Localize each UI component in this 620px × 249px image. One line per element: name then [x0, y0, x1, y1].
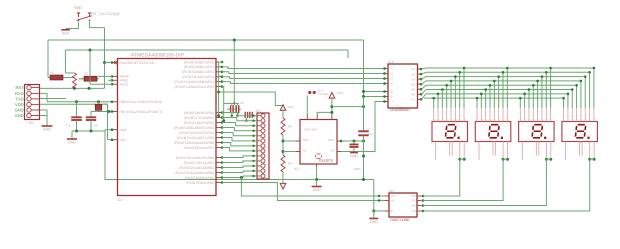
wire PB4 to JP2 pad 13	[222, 176, 257, 178]
supply VCC arrow at IC2	[329, 93, 335, 99]
wire tap display 4 pin 6	[584, 77, 586, 108]
wire tap display 4 pin 1	[563, 98, 565, 108]
wire SDA row to IC2	[283, 151, 300, 153]
connector JP1 FTDI box	[25, 85, 40, 120]
svg-text:7: 7	[547, 118, 548, 121]
wire PC1 to driver	[222, 67, 384, 69]
wire bus line 8 stub	[424, 97, 426, 99]
display LED3 top pin 1	[519, 108, 521, 122]
connector JP2 pad 8	[261, 149, 265, 153]
svg-text:SW1: SW1	[74, 5, 83, 10]
node tap d3p3	[528, 88, 531, 91]
svg-text:R3: R3	[288, 125, 292, 129]
display LED4 top pin 4	[576, 108, 578, 122]
svg-text:I1: I1	[391, 67, 394, 71]
IC3 input pin I1	[384, 68, 388, 70]
svg-text:2: 2	[482, 118, 483, 121]
capacitor C8	[249, 112, 251, 118]
svg-text:SCL: SCL	[303, 138, 309, 142]
wire chain bottom arrow	[282, 172, 284, 183]
IC2 top pin 3	[331, 114, 333, 120]
svg-text:VCC: VCC	[337, 91, 344, 95]
IC3 output pin O5	[418, 88, 422, 90]
resistor R4	[281, 155, 285, 172]
wire PC4 to driver	[222, 82, 384, 84]
node chain SCL	[282, 140, 285, 143]
connector JP1 pad 3 TXD	[27, 97, 31, 101]
svg-text:4: 4	[577, 147, 578, 150]
wire bus line 6	[426, 89, 572, 91]
wire PD7 to JP2 pad 8	[222, 148, 257, 151]
wire FTDI TXD	[40, 98, 66, 100]
display LED1 top pin 3	[441, 108, 443, 122]
display LED3 top pin 7	[545, 108, 547, 122]
node tap d3p1	[519, 97, 522, 100]
resistor R1	[48, 77, 50, 79]
node IC2 pin3	[330, 105, 333, 108]
svg-text:8: 8	[508, 118, 509, 121]
svg-text:IC1: IC1	[117, 198, 122, 202]
svg-text:O6: O6	[411, 92, 415, 96]
wire PD3 to JP2 pad 4	[222, 128, 257, 131]
display LED1 top pin 2	[437, 108, 439, 122]
display LED3 bottom pin b	[535, 142, 537, 156]
capacitor C5 vertical line	[363, 97, 365, 132]
node tap d1p5	[450, 80, 453, 83]
svg-text:I2: I2	[391, 72, 394, 76]
svg-text:IC3: IC3	[389, 60, 394, 64]
connector JP2 pad 4	[261, 129, 265, 133]
svg-text:C3: C3	[240, 101, 244, 105]
node tap d4p5	[580, 80, 583, 83]
wire PD4 to JP2 pad 5	[222, 133, 257, 136]
svg-text:GND: GND	[62, 31, 70, 35]
svg-text:PB6(XTAL1/TOSC1/PCINT6): PB6(XTAL1/TOSC1/PCINT6)	[120, 100, 163, 104]
svg-text:GND: GND	[313, 188, 321, 192]
IC4 output pin O2	[417, 205, 422, 207]
svg-text:X2: X2	[330, 149, 334, 153]
ground at decoder	[373, 211, 375, 218]
wire rail A drop to C3 cluster	[233, 40, 235, 103]
wire tap display 2 pin 8	[506, 68, 508, 108]
wire FTDI RXD	[40, 93, 47, 101]
node common 3	[545, 158, 548, 161]
svg-text:TXD: TXD	[16, 96, 24, 101]
display LED2 common pins	[502, 142, 504, 158]
display LED2 bottom pin a	[478, 142, 480, 161]
svg-text:(PCINT22/OC0A/AIN0)PD6: (PCINT22/OC0A/AIN0)PD6	[174, 141, 214, 145]
display LED3 top pin 2	[524, 108, 526, 122]
svg-text:7: 7	[590, 118, 591, 121]
wire tap display 4 pin 5	[580, 81, 582, 108]
display LED1 bottom pin a	[435, 142, 437, 161]
wire driver in6	[364, 96, 385, 98]
wire bus line 2	[426, 71, 590, 73]
node at C5 vertical	[362, 105, 365, 108]
wire VCC rail A top	[48, 39, 364, 41]
IC1 left pin PB7(XTAL2/TOSC2/PCINT7)	[112, 111, 118, 113]
svg-text:10k: 10k	[79, 78, 84, 82]
wire decoder O3 to display 4 common	[423, 159, 590, 211]
IC1 right pin (PCINT11/ADC3)PC3	[216, 76, 222, 78]
display LED1 common pins	[459, 142, 461, 158]
node XTAL1/C1	[75, 100, 78, 103]
IC4 output pin O0	[417, 195, 422, 197]
IC1 left pin PB6(XTAL1/TOSC1/PCINT6)	[112, 101, 118, 103]
svg-text:6: 6	[499, 118, 500, 121]
capacitor C2	[90, 112, 92, 118]
IC3 output pin O7	[418, 98, 422, 100]
IC2 left pins	[296, 140, 300, 142]
wire tap display 3 pin 5	[537, 81, 539, 108]
IC1 right pin (PCINT12/ADC4/SDA)PC4	[216, 81, 222, 83]
IC1 right pin (PCINT18/INT0)PD2	[216, 122, 222, 124]
svg-text:2: 2	[525, 118, 526, 121]
wire tap display 3 pin 7	[545, 72, 547, 108]
wire PB4 to decoder A0	[241, 178, 384, 197]
connector JP2 pad 2	[261, 119, 265, 123]
node tap d2p5	[493, 80, 496, 83]
svg-text:3: 3	[573, 118, 574, 121]
node chain SDA	[282, 150, 285, 153]
wire rail A left drop to R1	[47, 40, 49, 78]
svg-text:(PCINT16/RXD)PD0: (PCINT16/RXD)PD0	[184, 111, 214, 115]
svg-text:C1: C1	[67, 124, 71, 128]
solder jumper SJ1	[308, 91, 311, 94]
ground under FTDI	[42, 125, 53, 127]
display LED4 top pin 3	[571, 108, 573, 122]
display LED2 digit 8	[489, 125, 499, 138]
svg-text:9: 9	[454, 147, 455, 150]
node tap d4p4	[575, 84, 578, 87]
wire C3 top link	[224, 102, 239, 104]
IC1 right pin (PCINT20/XCK/T0)PD4	[216, 132, 222, 134]
capacitor C3	[227, 108, 230, 110]
display LED3 top pin 4	[532, 108, 534, 122]
display LED2 bottom pin b	[492, 142, 494, 156]
svg-text:3: 3	[509, 147, 510, 150]
connector JP2 pad 5	[261, 134, 265, 138]
connector JP2 pad 11	[261, 164, 265, 168]
resistor R3	[281, 118, 285, 135]
wire IC2 SDA right to C5 vertical	[341, 140, 364, 142]
node tap d3p4	[532, 84, 535, 87]
crystal glyph inside IC2	[316, 154, 322, 159]
display LED1 top pin 6	[454, 108, 456, 122]
svg-text:VCC VBAT: VCC VBAT	[304, 128, 318, 132]
node IC4 out O0	[422, 195, 425, 198]
svg-text:O1: O1	[412, 199, 416, 203]
node on RST wire at R2	[88, 87, 91, 90]
IC3 output pin O3	[418, 78, 422, 80]
IC1 right pin (PCINT22/OC0A/AIN0)PD6	[216, 142, 222, 144]
node tap d4p3	[571, 88, 574, 91]
wire PB1 to JP2 pad 10	[222, 161, 257, 163]
node C2 gnd	[90, 130, 93, 133]
display LED2 top pin 2	[480, 108, 482, 122]
wire PB2 to JP2 pad 11	[222, 166, 257, 168]
display LED3 digit 8	[532, 125, 542, 138]
svg-text:I6: I6	[391, 95, 394, 99]
svg-text:3: 3	[486, 118, 487, 121]
svg-text:(PCINT3/OC2A/MOSI)PB3: (PCINT3/OC2A/MOSI)PB3	[175, 171, 215, 175]
svg-text:R2: R2	[84, 72, 88, 76]
connector JP2 box	[257, 113, 269, 179]
svg-text:6: 6	[456, 118, 457, 121]
IC1 right pin (PCINT19/OC2B/INT1)PD3	[216, 127, 222, 129]
node	[362, 140, 365, 143]
svg-text:GND: GND	[43, 128, 51, 132]
node tap d4p2	[567, 93, 570, 96]
svg-text:4: 4	[534, 147, 535, 150]
IC1 right pin (PCINT23/AIN1)PD7	[216, 147, 222, 149]
svg-text:C5: C5	[367, 127, 371, 131]
wire PD2 to JP2 pad 3	[222, 123, 257, 126]
node tap d1p7	[458, 71, 461, 74]
node XTAL2 bend	[107, 110, 110, 113]
wire PC3 to driver	[222, 77, 384, 79]
wire PC5 down to JP2 pad2 net	[222, 87, 224, 121]
wire tap display 1 pin 4	[446, 85, 448, 108]
svg-text:(PCINT23/AIN1)PD7: (PCINT23/AIN1)PD7	[184, 146, 215, 150]
wire driver O6 jog to bus	[422, 90, 427, 95]
IC3 output pin O1	[418, 68, 422, 70]
node tap d1p2	[437, 93, 440, 96]
IC3 output pin O4	[418, 83, 422, 85]
wire XTAL2 row	[91, 111, 112, 113]
wire RESET to MCU pin	[105, 62, 115, 64]
connector JP2 pad 12	[261, 169, 265, 173]
svg-text:8: 8	[595, 118, 596, 121]
svg-text:5: 5	[567, 147, 568, 150]
svg-text:A0: A0	[391, 194, 395, 198]
wire rail B right stub down	[347, 50, 349, 58]
connector JP2 pad 6	[261, 139, 265, 143]
IC2 top pin 2	[316, 114, 318, 120]
wire tap display 1 pin 1	[433, 98, 435, 108]
wire PD0 to JP2 pad 1	[222, 113, 257, 116]
display LED1 box	[432, 122, 468, 142]
wire tap display 1 pin 7	[459, 72, 461, 108]
node tap d2p6	[497, 75, 500, 78]
wire tap display 4 pin 8	[593, 68, 595, 108]
resistor R5 pullup zigzag	[65, 72, 74, 74]
IC3 input pin I7	[384, 101, 388, 103]
display LED2 decimal point	[501, 137, 503, 139]
svg-text:3: 3	[530, 118, 531, 121]
wire tap display 1 pin 6	[454, 77, 456, 108]
wire tap display 3 pin 8	[550, 68, 552, 108]
svg-text:(PCINT4/MISO)PB4: (PCINT4/MISO)PB4	[185, 176, 215, 180]
display LED3 top pin 3	[528, 108, 530, 122]
display LED4 bottom pin a	[565, 142, 567, 161]
wire tap display 1 pin 8	[463, 68, 465, 108]
node XTAL1/Q1	[97, 100, 100, 103]
node in6	[362, 95, 365, 98]
display LED2 top pin 4	[489, 108, 491, 122]
svg-text:JP2: JP2	[255, 109, 261, 113]
wire PB5 to decoder A1	[222, 183, 385, 201]
display LED3 top pin 5	[537, 108, 539, 122]
svg-text:(PCINT9/ADC1)PC1: (PCINT9/ADC1)PC1	[184, 65, 214, 69]
svg-text:(PCINT21/OC0B/T1)PD5: (PCINT21/OC0B/T1)PD5	[177, 136, 214, 140]
wire E to pin	[374, 210, 385, 212]
node tap d1p1	[432, 97, 435, 100]
wire bus line 4	[426, 80, 581, 82]
svg-text:GND: GND	[68, 141, 76, 145]
display LED3 box	[519, 122, 555, 142]
wire PD1 to JP2 pad 2	[222, 118, 257, 121]
wire PD6 to JP2 pad 7	[222, 143, 257, 146]
IC1 left pin AGND	[112, 75, 118, 77]
svg-text:(PCINT5/SCK)PB5: (PCINT5/SCK)PB5	[186, 181, 214, 185]
wire common join 2	[503, 158, 507, 160]
IC1 right pin (PCINT1/OC1A)PB1	[216, 162, 222, 164]
wire tap display 1 pin 5	[450, 81, 452, 108]
wire E/GND vertical	[373, 180, 375, 212]
wire AVCC up to rail B	[90, 83, 112, 85]
wire VCC rail B second	[65, 49, 348, 51]
svg-text:AVCC: AVCC	[120, 83, 130, 87]
wire driver O2 jog to bus	[422, 72, 427, 74]
node tap d3p6	[541, 75, 544, 78]
svg-text:O5: O5	[411, 87, 415, 91]
node tap d3p2	[523, 93, 526, 96]
svg-text:I7: I7	[391, 100, 394, 104]
svg-text:O2: O2	[411, 72, 415, 76]
node AVCC rail B	[89, 49, 92, 52]
svg-text:GND: GND	[354, 167, 360, 171]
IC2 RTC box	[300, 120, 337, 165]
svg-text:E: E	[391, 209, 393, 213]
svg-text:ATMEGA48/88/168-DIP: ATMEGA48/88/168-DIP	[131, 53, 185, 59]
wire decoder O2 to display 3 common	[423, 159, 546, 205]
node reset junction at MCU RESET row	[103, 61, 106, 64]
display LED4 bottom pin c	[581, 142, 583, 156]
wire tap display 2 pin 6	[498, 77, 500, 108]
display LED3 bottom pin c	[538, 142, 540, 156]
svg-text:(PCINT2/SS/OC1B)PB2: (PCINT2/SS/OC1B)PB2	[179, 166, 215, 170]
svg-text:5: 5	[480, 147, 481, 150]
wire rail A right drop joins C5 vertical	[363, 40, 365, 97]
wire to pullup chain arrow	[219, 92, 283, 106]
wire long GND run to decoder area	[105, 131, 374, 180]
svg-text:(PCINT19/OC2B/INT1)PD3: (PCINT19/OC2B/INT1)PD3	[174, 126, 214, 130]
wire PB3 to JP2 pad 12	[222, 171, 257, 173]
svg-text:3: 3	[552, 147, 553, 150]
connector JP1 pad 1 RST	[27, 85, 31, 89]
svg-text:4: 4	[447, 118, 448, 121]
IC1 left pin PC6(/RESET/PCINT14)	[112, 62, 118, 64]
IC3 input pin I2	[384, 73, 388, 75]
svg-text:5: 5	[524, 147, 525, 150]
svg-text:(PCINT12/ADC4/SDA)PC4: (PCINT12/ADC4/SDA)PC4	[174, 80, 214, 84]
svg-text:O3: O3	[411, 77, 415, 81]
svg-text:GND: GND	[350, 154, 358, 158]
svg-text:O2: O2	[412, 204, 416, 208]
IC3 input pin I3	[384, 78, 388, 80]
svg-text:VCCSEL: VCCSEL	[318, 93, 329, 96]
capacitor C4	[239, 108, 241, 110]
svg-text:SPST_TACT-EVQQ2: SPST_TACT-EVQQ2	[88, 12, 120, 16]
node tap d4p6	[584, 75, 587, 78]
wire tap display 3 pin 4	[532, 85, 534, 108]
wire rail B left drop	[64, 50, 66, 73]
wire driver O4 jog to bus	[422, 81, 427, 84]
node tap d3p5	[536, 80, 539, 83]
wire driver O5 jog to bus	[422, 85, 427, 89]
svg-text:O7: O7	[411, 98, 415, 102]
IC3 input pin I4	[384, 83, 388, 85]
svg-text:3: 3	[466, 147, 467, 150]
svg-text:74HCT139D: 74HCT139D	[390, 218, 410, 222]
IC4 decoder box	[389, 193, 417, 217]
wire tap display 4 pin 3	[571, 90, 573, 108]
display LED4 top pin 5	[580, 108, 582, 122]
svg-text:5: 5	[582, 118, 583, 121]
node common 1	[458, 158, 461, 161]
wire tap display 2 pin 5	[493, 81, 495, 108]
svg-text:4: 4	[534, 118, 535, 121]
wire SW1 right contact to reset net	[90, 22, 105, 28]
wire PC2 to driver	[222, 72, 384, 74]
IC3 output pin O2	[418, 73, 422, 75]
wire SW1 left contact to GND	[66, 22, 79, 29]
svg-text:1: 1	[478, 118, 479, 121]
svg-text:O0: O0	[412, 194, 416, 198]
display LED1 top pin 7	[459, 108, 461, 122]
svg-text:R4: R4	[288, 162, 292, 166]
svg-text:O1: O1	[411, 67, 415, 71]
display LED3 top pin 8	[550, 108, 552, 122]
connector JP2 pad 10	[261, 159, 265, 163]
node tap d4p8	[593, 67, 596, 70]
node PB4 branch	[240, 176, 243, 179]
IC4 output pin O1	[417, 200, 422, 202]
svg-text:ULN2003AD: ULN2003AD	[390, 108, 410, 112]
wire common join 3	[546, 158, 550, 160]
connector JP2 pad 3	[261, 124, 265, 128]
svg-text:(PCINT13/ADC5/SCL)PC5: (PCINT13/ADC5/SCL)PC5	[175, 85, 214, 89]
svg-text:9: 9	[541, 147, 542, 150]
node decoder input bubbles	[378, 195, 380, 197]
wire bus line 5	[426, 84, 577, 86]
IC1 right pin (PCINT0/CLKO/ICP1)PB0	[216, 157, 222, 159]
capacitor C6	[353, 140, 356, 143]
display LED3 top pin 6	[541, 108, 543, 122]
svg-text:GND: GND	[15, 107, 24, 112]
node tap d1p3	[441, 88, 444, 91]
IC1 left pin VCC	[112, 139, 118, 141]
display LED1 top pin 4	[446, 108, 448, 122]
display LED4 decimal point	[587, 137, 589, 139]
wire chain middle	[282, 135, 284, 155]
IC4 input pin A0	[385, 195, 390, 197]
svg-text:4: 4	[491, 118, 492, 121]
node on RST wire at R5	[73, 87, 76, 90]
wire tap display 2 pin 7	[502, 72, 504, 108]
IC2 right pins	[337, 140, 341, 142]
svg-text:O3: O3	[412, 209, 416, 213]
display LED3 common pins	[545, 142, 547, 158]
svg-text:8: 8	[551, 118, 552, 121]
capacitor C7	[244, 112, 246, 118]
wire tap display 3 pin 3	[528, 90, 530, 108]
display LED3 bottom pin a	[521, 142, 523, 161]
connector JP2 pad 7	[261, 144, 265, 148]
svg-text:(PCINT10/ADC2)PC2: (PCINT10/ADC2)PC2	[182, 70, 214, 74]
switch SW1	[78, 14, 80, 18]
